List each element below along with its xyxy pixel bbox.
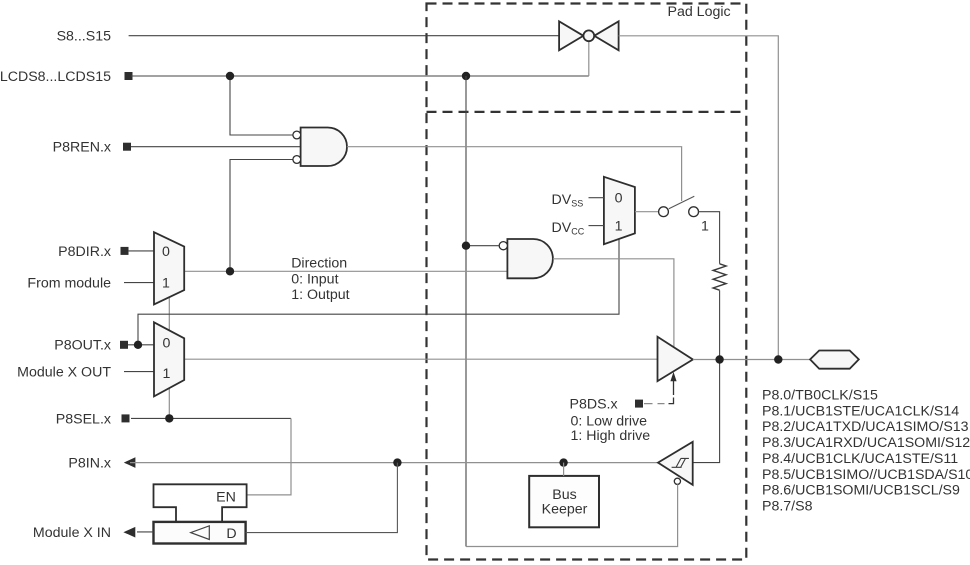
svg-text:Direction: Direction [291,256,347,272]
svg-text:P8DIR.x: P8DIR.x [58,244,111,260]
terminal square P8SEL [122,414,130,422]
outer dashed box Pad Logic [427,4,747,560]
svg-text:S8...S15: S8...S15 [57,29,112,45]
wire LCDS branch to REN AND top input [230,76,293,135]
schmitt trigger input buffer [658,442,693,485]
mux M1 P8DIR/From module [154,232,184,304]
wire x466 stub to direction AND bubble [466,245,499,247]
wire DV mux output to switch [635,211,659,213]
inner dashed divider [427,111,747,113]
svg-text:P8.2/UCA1TXD/UCA1SIMO/S13: P8.2/UCA1TXD/UCA1SIMO/S13 [762,419,969,435]
terminal square P8REN [123,143,131,151]
pad hexagon [810,351,859,369]
arrow P8DS drive strength [670,372,676,381]
wire resistor to pad line [719,290,721,359]
arrow Module X IN [123,527,135,538]
wire Module X OUT to mux2 input 1 [124,371,154,373]
bus keeper [529,476,599,527]
svg-text:LCDS8...LCDS15: LCDS8...LCDS15 [0,69,111,85]
wire schmitt enable from LCDS [466,484,678,546]
wire LCDS line [131,75,589,77]
svg-text:Keeper: Keeper [542,501,588,517]
svg-text:P8IN.x: P8IN.x [68,456,111,472]
node junction LCDS at x230 [226,72,234,80]
svg-text:1: Output: 1: Output [291,287,349,303]
wire switch to resistor [699,212,720,264]
svg-text:P8.5/UCB1SIMO//UCB1SDA/S10: P8.5/UCB1SIMO//UCB1SDA/S10 [762,467,970,483]
arrow P8IN output [124,457,136,468]
svg-text:1: 1 [162,276,170,292]
svg-text:DVCC: DVCC [552,220,585,237]
resistor R1 pull-up/down [713,264,726,290]
svg-text:P8.1/UCB1STE/UCA1CLK/S14: P8.1/UCB1STE/UCA1CLK/S14 [762,403,959,419]
svg-text:0: Input: 0: Input [291,271,338,287]
terminal square P8DIR [121,247,129,255]
wire P8SEL to EN latch [247,418,291,495]
node junction direction at x230 [226,267,234,275]
node junction resistor pad [715,355,723,363]
svg-text:0: 0 [615,191,623,207]
wire P8REN to AND middle input [131,146,301,148]
svg-text:P8.0/TB0CLK/S15: P8.0/TB0CLK/S15 [762,388,878,404]
wire DVss stub [589,197,604,199]
wire P8OUT to mux2 input 0 [128,344,154,346]
svg-text:Pad Logic: Pad Logic [668,4,731,20]
svg-text:0: 0 [162,244,170,260]
wire LCDS tap to transmission gate [588,41,590,76]
node junction bus keeper tap [559,458,567,466]
wire DVcc stub [589,225,604,227]
wire transmission gate output to pad column [619,36,779,360]
node junction LCDS at x466 [462,72,470,80]
wire driver output pad line [693,359,810,361]
node junction module X IN tap [393,458,401,466]
svg-text:P8REN.x: P8REN.x [53,140,111,156]
wire P8OUT branch to DV mux select [138,237,619,345]
latch D box [154,522,246,544]
node junction transmission gate pad [774,355,782,363]
svg-text:P8DS.x: P8DS.x [570,396,618,412]
svg-text:P8SEL.x: P8SEL.x [56,411,111,427]
wire direction branch to REN AND bottom input [230,160,293,272]
node junction P8OUT [134,341,142,349]
terminal square P8DS [635,400,643,408]
svg-text:D: D [226,526,236,542]
wire mux select column x169 [168,297,170,418]
wire LCDS vertical x466 [465,76,467,547]
wire mux2 output to output driver [184,358,657,360]
and-gate U1 P8REN enable [293,128,347,167]
svg-text:P8.7/S8: P8.7/S8 [762,498,813,514]
svg-text:P8OUT.x: P8OUT.x [54,338,111,354]
and-gate U2 direction [499,239,553,278]
svg-text:1: 1 [615,219,623,235]
dv mux DVss/DVcc [604,177,635,244]
terminal square P8OUT [120,341,128,349]
switch S1 pull resistor enable [659,196,709,234]
svg-text:P8.3/UCA1RXD/UCA1SOMI/S12: P8.3/UCA1RXD/UCA1SOMI/S12 [762,435,970,451]
svg-text:1: High drive: 1: High drive [571,428,651,444]
output driver buffer [658,337,693,381]
node junction x466 direction [462,242,470,250]
svg-text:DVSS: DVSS [552,192,584,209]
label pin list [762,388,970,515]
wire P8IN line from schmitt output [130,462,658,464]
svg-text:1: 1 [163,366,171,382]
svg-text:1: 1 [701,218,709,234]
svg-text:P8.4/UCB1CLK/UCA1STE/S11: P8.4/UCB1CLK/UCA1STE/S11 [762,451,958,467]
wire direction AND output to driver enable [553,259,674,348]
wire P8DIR to mux1 input 0 [128,250,154,252]
latch EN box [154,484,247,522]
svg-text:0: 0 [163,335,171,351]
wire P8SEL line [131,417,291,419]
svg-text:Module X OUT: Module X OUT [17,365,111,381]
svg-text:Module X IN: Module X IN [33,525,111,541]
mux M2 P8OUT/Module X OUT [154,322,184,396]
svg-text:P8.6/UCB1SOMI/UCB1SCL/S9: P8.6/UCB1SOMI/UCB1SCL/S9 [762,483,960,499]
node junction P8SEL select [165,414,173,422]
transmission gate [559,21,619,50]
wire bus keeper stub [563,463,565,476]
svg-text:EN: EN [216,489,236,505]
wire P8DS dashed control [644,403,665,405]
wire pad to schmitt input [693,360,720,463]
terminal square LCDS [125,72,133,80]
svg-text:From module: From module [27,276,111,292]
wire From module to mux1 input 1 [124,282,154,284]
wire Module X IN from D box [137,531,154,533]
wire S8 bus to transmission gate [129,35,559,37]
wire D box to P8IN junction [246,463,398,533]
wire Direction line mux1 output to direction AND [184,270,507,272]
wire REN AND output to switch lever [347,147,682,201]
